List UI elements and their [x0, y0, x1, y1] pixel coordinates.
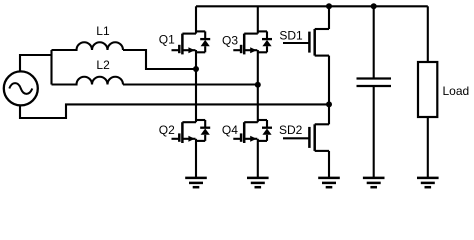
wire Q3 source to node B — [257, 50, 259, 85]
svg-text:SD2: SD2 — [279, 123, 303, 137]
svg-text:Q3: Q3 — [222, 34, 238, 48]
load resistor rectangle — [418, 62, 437, 117]
node C junction dot SD1 source / SD2 drain — [326, 101, 332, 107]
wire L1 right lead to node A — [123, 50, 196, 69]
svg-text:L2: L2 — [96, 58, 110, 72]
ground under capacitor — [363, 178, 385, 187]
wire Q2 source to ground — [195, 139, 197, 178]
svg-text:Q1: Q1 — [159, 32, 175, 46]
wire capacitor bottom lead — [373, 86, 375, 178]
inductor L2 — [52, 77, 124, 85]
wire load top lead — [427, 6, 429, 62]
inductor L1 — [52, 42, 124, 50]
wire SD2 source to ground — [328, 151, 330, 178]
ground under Q4 — [247, 178, 269, 187]
wire Q1 source to node A — [195, 50, 197, 69]
wire Q4 drain from node B — [257, 85, 259, 123]
svg-text:Q4: Q4 — [222, 123, 238, 137]
wire Q2 drain from node A — [195, 69, 197, 122]
transistor Q2 — [172, 120, 211, 143]
node B junction dot Q3 source — [255, 82, 261, 88]
wire load bottom lead — [427, 117, 429, 178]
node junction dot SD1 drain on rail — [326, 3, 332, 9]
wire L2 right lead to node B — [123, 83, 258, 85]
capacitor C plates — [357, 79, 392, 87]
ground under SD2 — [318, 178, 340, 187]
wire SD2 drain from node C — [328, 104, 330, 124]
transistor Q1 — [172, 31, 211, 54]
svg-text:SD1: SD1 — [279, 28, 303, 42]
wire Q4 source to ground — [257, 139, 259, 178]
AC source V1 sine wave — [9, 83, 32, 94]
wire SD1 drain — [328, 6, 330, 29]
node junction dot capacitor on rail — [371, 3, 377, 9]
AC source V1 circle — [4, 71, 38, 105]
wire Q3 drain — [257, 6, 259, 33]
wire AC bottom lead to node C — [20, 104, 329, 118]
wire capacitor top lead — [373, 6, 375, 78]
wire AC top lead — [20, 55, 52, 72]
svg-text:L1: L1 — [96, 24, 110, 38]
wire top rail — [196, 5, 428, 7]
wire left vertical joining L1 and L2 — [50, 50, 52, 85]
node A junction dot Q1 source — [193, 66, 199, 72]
ground under load — [417, 178, 439, 187]
svg-text:Q2: Q2 — [159, 123, 175, 137]
transistor SD1 — [283, 29, 329, 56]
transistor Q3 — [233, 31, 272, 54]
transistor SD2 — [283, 124, 329, 151]
ground under Q2 — [185, 178, 207, 187]
transistor Q4 — [233, 120, 272, 143]
wire Q1 drain — [195, 6, 197, 33]
wire SD1 source to node C — [328, 56, 330, 105]
svg-text:Load: Load — [443, 84, 470, 98]
